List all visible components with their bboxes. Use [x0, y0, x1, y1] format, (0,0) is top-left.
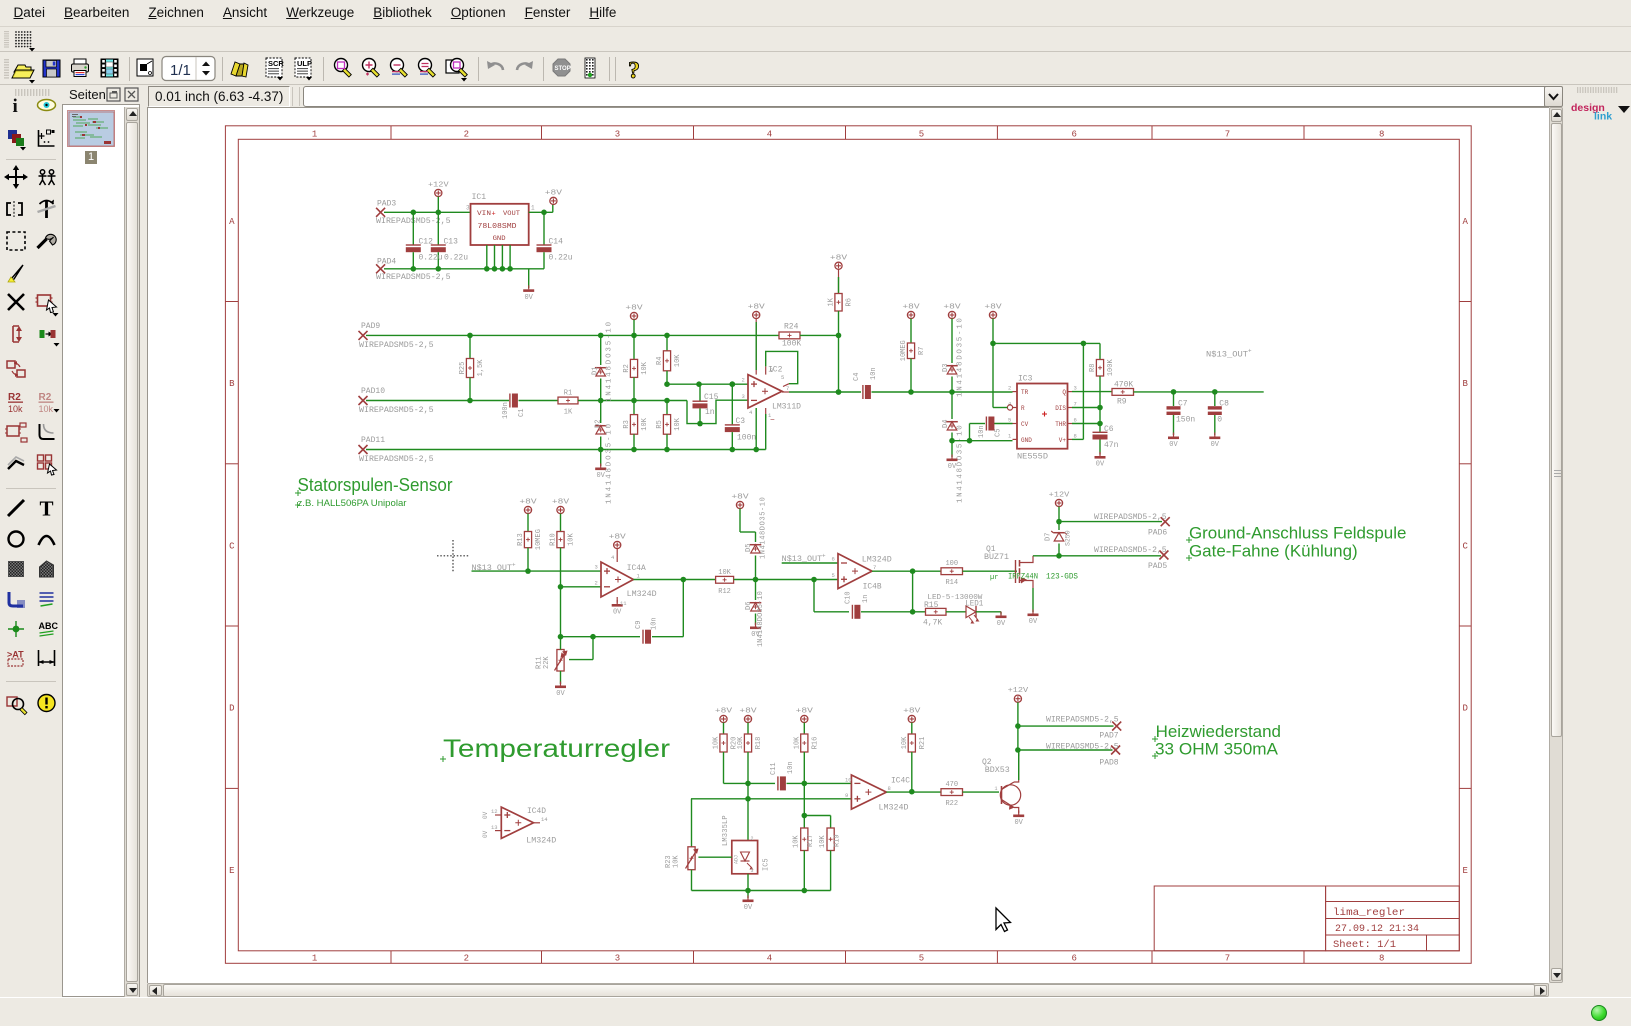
svg-text:1N4148DO35-10: 1N4148DO35-10	[757, 591, 765, 647]
svg-text:10k: 10k	[8, 404, 23, 414]
svg-text:5: 5	[919, 953, 924, 963]
svg-text:LM324D: LM324D	[862, 556, 892, 565]
svg-text:+: +	[822, 553, 826, 560]
svg-text:+8V: +8V	[609, 534, 627, 542]
svg-text:R17: R17	[807, 834, 815, 847]
svg-text:10K: 10K	[641, 361, 649, 374]
svg-text:6: 6	[1071, 130, 1076, 140]
svg-text:+8V: +8V	[552, 499, 570, 507]
svg-text:3: 3	[595, 564, 598, 571]
svg-text:IC4B: IC4B	[863, 583, 882, 592]
svg-text:+12V: +12V	[1049, 492, 1071, 500]
svg-text:LM324D: LM324D	[879, 804, 909, 813]
svg-text:R2: R2	[8, 392, 21, 403]
svg-text:2: 2	[1008, 385, 1011, 392]
svg-text:Statorspulen-Sensor: Statorspulen-Sensor	[298, 474, 453, 495]
svg-text:1n: 1n	[862, 595, 870, 603]
svg-text:7: 7	[786, 385, 789, 392]
svg-text:6: 6	[1074, 417, 1077, 424]
svg-text:B: B	[229, 379, 235, 389]
svg-text:8: 8	[1074, 432, 1077, 439]
svg-text:10: 10	[845, 777, 852, 784]
svg-text:R13: R13	[517, 533, 525, 546]
svg-text:R14: R14	[945, 579, 958, 587]
svg-text:R8: R8	[1089, 364, 1097, 372]
svg-text:C14: C14	[549, 237, 564, 246]
svg-text:WIREPADSMD5-2,5: WIREPADSMD5-2,5	[359, 341, 434, 350]
svg-text:10K: 10K	[794, 736, 802, 749]
svg-text:10K: 10K	[819, 835, 827, 848]
svg-text:4: 4	[749, 409, 753, 416]
svg-text:R10: R10	[550, 533, 558, 546]
svg-text:5: 5	[919, 130, 924, 140]
svg-text:0V: 0V	[1014, 819, 1023, 827]
svg-text:R2: R2	[623, 364, 631, 372]
svg-text:5: 5	[1008, 417, 1011, 424]
svg-text:T: T	[40, 497, 54, 521]
svg-text:GND: GND	[1021, 437, 1032, 444]
svg-text:C4: C4	[853, 373, 861, 381]
svg-text:Temperaturregler: Temperaturregler	[443, 735, 670, 763]
svg-text:1N4148DO35-10: 1N4148DO35-10	[606, 422, 614, 504]
svg-text:1: 1	[637, 573, 641, 580]
svg-text:LED1: LED1	[965, 600, 983, 609]
svg-text:8: 8	[1379, 130, 1384, 140]
svg-text:1N4148DO35-10: 1N4148DO35-10	[957, 316, 965, 397]
svg-text:GND: GND	[493, 235, 506, 242]
svg-text:+8V: +8V	[715, 708, 733, 716]
svg-text:7: 7	[873, 564, 876, 571]
svg-text:+: +	[492, 210, 496, 218]
svg-text:C3: C3	[736, 417, 746, 426]
svg-text:10K: 10K	[718, 569, 731, 577]
svg-text:D7: D7	[1045, 533, 1053, 541]
svg-text:VOUT: VOUT	[503, 210, 520, 217]
svg-text:R16: R16	[812, 737, 820, 750]
svg-text:1: 1	[531, 205, 535, 212]
svg-text:7: 7	[1225, 130, 1230, 140]
svg-text:R6: R6	[846, 298, 854, 306]
svg-text:C1: C1	[518, 409, 526, 417]
svg-text:100: 100	[945, 560, 958, 568]
svg-text:4: 4	[767, 953, 772, 963]
svg-text:VIN: VIN	[477, 210, 492, 217]
svg-text:1K: 1K	[828, 297, 836, 306]
svg-text:1N4148DO35-10: 1N4148DO35-10	[760, 497, 768, 559]
svg-text:4: 4	[767, 130, 772, 140]
svg-text:LM324D: LM324D	[526, 836, 556, 845]
svg-text:+12V: +12V	[1008, 687, 1030, 695]
svg-text:R12: R12	[718, 588, 731, 596]
svg-text:D1: D1	[592, 367, 600, 375]
svg-text:IC5: IC5	[763, 858, 771, 871]
svg-text:IC4C: IC4C	[891, 777, 910, 786]
svg-text:8: 8	[1379, 953, 1384, 963]
svg-text:>AT: >AT	[7, 650, 24, 660]
svg-text:+8V: +8V	[625, 305, 643, 313]
svg-text:NE555D: NE555D	[1017, 453, 1048, 462]
svg-text:0V: 0V	[613, 609, 622, 617]
svg-text:0V: 0V	[1029, 618, 1038, 626]
svg-text:R3: R3	[623, 420, 631, 428]
svg-text:11: 11	[620, 600, 627, 607]
svg-text:ADJ: ADJ	[734, 855, 740, 864]
svg-text:z.B. HALL506PA Unipolar: z.B. HALL506PA Unipolar	[298, 498, 407, 509]
svg-text:BUZ71: BUZ71	[984, 553, 1009, 562]
svg-text:10n: 10n	[870, 367, 878, 380]
svg-text:10n: 10n	[787, 761, 795, 774]
svg-text:8: 8	[888, 785, 891, 792]
svg-text:C: C	[1462, 541, 1468, 551]
svg-text:µr: µr	[990, 574, 998, 582]
svg-text:IRFZ44N: IRFZ44N	[1008, 573, 1038, 582]
svg-text:0V: 0V	[482, 811, 489, 819]
svg-text:R9: R9	[1117, 398, 1127, 407]
svg-text:+12V: +12V	[428, 182, 450, 190]
svg-text:1,5K: 1,5K	[477, 359, 485, 377]
svg-text:0V: 0V	[948, 463, 957, 471]
svg-text:+8V: +8V	[984, 304, 1002, 312]
svg-text:C10: C10	[845, 591, 853, 604]
svg-text:PAD7: PAD7	[1099, 732, 1118, 741]
svg-text:1: 1	[312, 953, 317, 963]
svg-text:C11: C11	[770, 762, 778, 775]
svg-text:+8V: +8V	[830, 254, 848, 262]
svg-text:3: 3	[615, 953, 620, 963]
svg-text:SCR: SCR	[268, 59, 284, 68]
svg-text:9: 9	[845, 792, 848, 799]
svg-text:LM324D: LM324D	[627, 590, 657, 599]
svg-text:10MEG: 10MEG	[900, 340, 908, 361]
svg-text:R22: R22	[945, 800, 958, 808]
svg-text:0.22u: 0.22u	[549, 254, 573, 263]
svg-text:link: link	[1594, 111, 1612, 123]
svg-text:0: 0	[1217, 416, 1222, 425]
svg-text:V+: V+	[1059, 437, 1067, 444]
svg-text:R24: R24	[784, 323, 799, 332]
svg-text:470K: 470K	[1114, 380, 1133, 389]
svg-text:E: E	[1462, 866, 1467, 876]
svg-text:4: 4	[1008, 401, 1012, 408]
svg-text:N$13_OUT: N$13_OUT	[1206, 351, 1248, 360]
svg-text:R25: R25	[459, 362, 467, 375]
svg-text:7: 7	[1225, 953, 1230, 963]
svg-text:6: 6	[1071, 953, 1076, 963]
svg-text:+8V: +8V	[796, 708, 814, 716]
svg-text:+: +	[512, 562, 516, 569]
svg-text:PAD3: PAD3	[377, 199, 396, 208]
svg-text:+: +	[1248, 348, 1252, 355]
svg-text:ULP: ULP	[297, 59, 312, 68]
svg-text:C12: C12	[419, 237, 434, 246]
svg-text:10K: 10K	[674, 417, 682, 430]
svg-text:PAD8: PAD8	[1099, 758, 1118, 767]
svg-text:2: 2	[464, 130, 469, 140]
svg-text:C6: C6	[1104, 425, 1114, 434]
svg-text:IC1: IC1	[472, 193, 487, 202]
svg-text:10k: 10k	[39, 404, 54, 414]
svg-text:0.22u: 0.22u	[444, 254, 468, 263]
svg-text:14: 14	[541, 816, 548, 823]
svg-text:10K: 10K	[713, 736, 721, 749]
svg-text:10K: 10K	[673, 855, 681, 868]
svg-text:R1: R1	[564, 390, 572, 398]
svg-text:7: 7	[1074, 401, 1077, 408]
svg-text:D6: D6	[745, 602, 753, 610]
svg-text:33 OHM 350mA: 33 OHM 350mA	[1155, 740, 1278, 758]
svg-text:3: 3	[466, 205, 470, 212]
svg-text:4: 4	[611, 554, 615, 561]
svg-text:C8: C8	[1219, 400, 1229, 409]
svg-text:R7: R7	[918, 347, 926, 355]
svg-text:5: 5	[781, 374, 784, 381]
svg-text:12: 12	[491, 808, 498, 815]
svg-text:0V: 0V	[482, 830, 489, 838]
svg-text:Sheet: 1/1: Sheet: 1/1	[1333, 939, 1396, 951]
svg-text:R15: R15	[924, 601, 939, 610]
svg-text:D: D	[1462, 704, 1467, 714]
svg-text:+8V: +8V	[903, 708, 921, 716]
svg-text:PAD10: PAD10	[361, 387, 385, 396]
svg-text:+8V: +8V	[902, 304, 920, 312]
svg-text:lima_regler: lima_regler	[1333, 907, 1405, 919]
svg-text:PAD5: PAD5	[1148, 562, 1167, 571]
svg-text:D3: D3	[942, 364, 950, 372]
svg-text:2: 2	[595, 580, 598, 587]
svg-text:LM311D: LM311D	[772, 403, 801, 412]
svg-text:0V: 0V	[997, 620, 1006, 628]
svg-text:0V: 0V	[1096, 461, 1105, 469]
svg-text:WIREPADSMD5-2,5: WIREPADSMD5-2,5	[359, 455, 434, 464]
svg-text:Q: Q	[1062, 389, 1066, 396]
svg-text:WIREPADSMD5-2,5: WIREPADSMD5-2,5	[1094, 513, 1167, 522]
svg-text:8: 8	[770, 367, 773, 374]
svg-text:10K: 10K	[901, 736, 909, 749]
svg-text:10K: 10K	[641, 417, 649, 430]
svg-text:2: 2	[751, 836, 754, 842]
svg-text:+8V: +8V	[545, 189, 563, 197]
svg-text:100K: 100K	[1107, 359, 1115, 377]
svg-text:R4: R4	[656, 357, 664, 365]
svg-text:0V: 0V	[524, 294, 533, 302]
svg-text:27.09.12 21:34: 27.09.12 21:34	[1335, 923, 1419, 935]
svg-text:STOP: STOP	[555, 66, 571, 72]
svg-text:B: B	[1462, 379, 1468, 389]
svg-text:A: A	[229, 217, 235, 227]
svg-text:0.22u: 0.22u	[419, 254, 443, 263]
svg-text:THR: THR	[1055, 421, 1066, 428]
svg-text:1N4148DO35-10: 1N4148DO35-10	[957, 424, 965, 503]
svg-text:A: A	[1462, 217, 1468, 227]
svg-text:10MEG: 10MEG	[535, 529, 543, 550]
svg-text:47n: 47n	[1104, 441, 1119, 450]
svg-text:E: E	[229, 866, 234, 876]
svg-text:R5: R5	[656, 420, 664, 428]
svg-text:WIREPADSMD5-2,5: WIREPADSMD5-2,5	[1094, 546, 1167, 555]
svg-text:D2: D2	[595, 420, 603, 428]
svg-text:TR: TR	[1021, 389, 1029, 396]
svg-text:100K: 100K	[782, 340, 801, 349]
svg-text:N$13_OUT: N$13_OUT	[472, 564, 513, 573]
svg-text:3: 3	[1074, 385, 1077, 392]
svg-text:+8V: +8V	[519, 499, 537, 507]
svg-text:−: −	[770, 416, 775, 425]
svg-text:i: i	[13, 96, 18, 117]
svg-text:13: 13	[491, 824, 498, 831]
svg-text:2: 2	[464, 953, 469, 963]
svg-text:BDX53: BDX53	[985, 766, 1010, 775]
svg-text:D4: D4	[942, 420, 950, 428]
svg-text:+8V: +8V	[731, 494, 749, 502]
svg-text:R: R	[1021, 405, 1025, 412]
svg-text:4,7K: 4,7K	[923, 619, 942, 628]
svg-text:IC4D: IC4D	[527, 807, 546, 816]
svg-text:WIREPADSMD5-2,5: WIREPADSMD5-2,5	[359, 406, 434, 415]
svg-text:22K: 22K	[543, 656, 551, 669]
svg-text:6: 6	[832, 556, 835, 563]
svg-text:0V: 0V	[1169, 441, 1178, 449]
svg-text:470: 470	[945, 781, 958, 789]
svg-text:ABC: ABC	[39, 621, 59, 631]
svg-text:R19: R19	[833, 834, 841, 847]
svg-text:PAD11: PAD11	[361, 436, 385, 445]
svg-text:C: C	[229, 541, 235, 551]
svg-text:Ground-Anschluss Feldspule: Ground-Anschluss Feldspule	[1189, 525, 1406, 543]
svg-text:WIREPADSMD5-2,5: WIREPADSMD5-2,5	[1046, 743, 1119, 752]
svg-text:3: 3	[742, 393, 745, 400]
svg-text:+8V: +8V	[739, 708, 757, 716]
svg-text:1: 1	[995, 786, 998, 792]
svg-text:1N4148DO35-10: 1N4148DO35-10	[606, 320, 614, 402]
svg-text:5: 5	[832, 572, 835, 579]
svg-text:Heizwiederstand: Heizwiederstand	[1156, 723, 1281, 741]
svg-text:123-GDS: 123-GDS	[1046, 573, 1078, 582]
svg-text:10n: 10n	[978, 425, 986, 438]
svg-text:R2: R2	[39, 392, 52, 403]
svg-text:?: ?	[628, 58, 640, 84]
svg-text:1: 1	[1008, 432, 1012, 439]
svg-text:R21: R21	[919, 737, 927, 750]
svg-text:78L08SMD: 78L08SMD	[478, 223, 517, 231]
svg-text:3: 3	[751, 868, 754, 874]
svg-text:C5: C5	[995, 429, 1003, 437]
svg-text:D5: D5	[745, 544, 753, 552]
svg-text:S250: S250	[1065, 530, 1072, 546]
svg-text:CV: CV	[1021, 421, 1029, 428]
svg-text:0V: 0V	[596, 472, 605, 480]
svg-text:Gate-Fahne (Kühlung): Gate-Fahne (Kühlung)	[1189, 543, 1358, 561]
svg-text:2: 2	[742, 377, 745, 384]
svg-text:10K: 10K	[674, 354, 682, 367]
svg-text:0V: 0V	[1211, 441, 1220, 449]
svg-text:10K: 10K	[737, 736, 745, 749]
svg-text:150n: 150n	[1176, 416, 1195, 425]
svg-text:D: D	[229, 704, 234, 714]
svg-text:10K: 10K	[568, 532, 576, 545]
svg-text:C13: C13	[444, 237, 459, 246]
svg-text:+8V: +8V	[943, 304, 961, 312]
svg-text:WIREPADSMD5-2,5: WIREPADSMD5-2,5	[1046, 715, 1119, 724]
svg-text:3: 3	[615, 130, 620, 140]
svg-text:1n: 1n	[705, 408, 715, 417]
svg-text:DIS: DIS	[1055, 405, 1066, 412]
svg-text:LM335LP: LM335LP	[722, 815, 730, 846]
svg-text:R18: R18	[755, 737, 763, 750]
svg-text:100n: 100n	[737, 433, 756, 442]
svg-text:WIREPADSMD5-2,5: WIREPADSMD5-2,5	[376, 273, 451, 282]
svg-text:1: 1	[312, 130, 317, 140]
svg-text:C7: C7	[1178, 400, 1188, 409]
svg-text:10K: 10K	[793, 835, 801, 848]
svg-text:PAD9: PAD9	[361, 322, 380, 331]
svg-text:PAD6: PAD6	[1148, 529, 1167, 538]
svg-text:0V: 0V	[744, 904, 753, 912]
svg-text:0V: 0V	[556, 690, 565, 698]
svg-text:1K: 1K	[564, 409, 573, 417]
svg-text:C9: C9	[635, 621, 643, 629]
svg-text:PAD4: PAD4	[377, 258, 396, 267]
svg-text:IC3: IC3	[1018, 375, 1033, 384]
svg-text:C15: C15	[704, 393, 719, 402]
svg-text:1/1: 1/1	[170, 62, 191, 79]
svg-text:+8V: +8V	[748, 304, 766, 312]
svg-text:100n: 100n	[502, 402, 510, 419]
svg-text:10n: 10n	[651, 617, 659, 630]
